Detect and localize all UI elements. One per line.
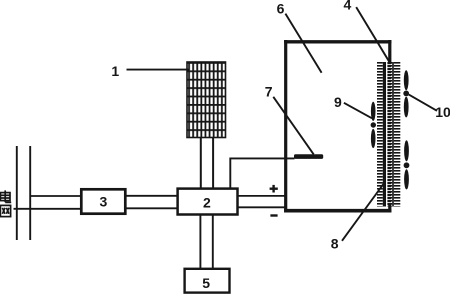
- wire box2 to electrode 7: [230, 158, 294, 189]
- leader line label 1: [127, 69, 190, 71]
- wire grid bus line right: [29, 146, 31, 240]
- wire box3 to box2 lower: [127, 207, 179, 209]
- component 4/8 (porous electrode band) left teeth: [377, 62, 383, 207]
- stirrer 9 (inner fan): [371, 102, 376, 148]
- svg-text:10: 10: [435, 104, 450, 120]
- wire box3 to box2 upper: [127, 195, 179, 197]
- svg-text:8: 8: [331, 236, 339, 252]
- stirrer 10 (outer fan upper): [403, 70, 409, 117]
- plus polarity sign: [270, 185, 278, 193]
- svg-text:7: 7: [265, 84, 273, 100]
- band spine 2: [387, 62, 391, 207]
- wire bus to box3 lower: [14, 208, 82, 210]
- svg-text:3: 3: [100, 194, 108, 210]
- box 2: [178, 189, 238, 215]
- box 3: [81, 189, 125, 213]
- svg-text:9: 9: [334, 94, 342, 110]
- band middle teeth: [391, 62, 393, 207]
- box 6 (reactor vessel): [284, 40, 391, 212]
- band right teeth: [394, 62, 401, 207]
- leader line label 7: [273, 97, 313, 155]
- wire box2 to box5 left: [199, 215, 201, 269]
- svg-text:2: 2: [203, 194, 211, 210]
- stirrer outer fan lower: [404, 140, 410, 189]
- leader line label 10: [409, 95, 437, 111]
- leader line label 4: [356, 7, 390, 63]
- leader line label 9: [344, 103, 372, 119]
- svg-text:1: 1: [111, 63, 119, 79]
- leader line label 6: [285, 14, 321, 73]
- wire box2 to box6 negative: [238, 206, 286, 208]
- wire box2 to box5 right: [212, 215, 214, 269]
- wire component1 to box2 left: [200, 138, 202, 190]
- component 1 (grid block): [187, 62, 226, 138]
- wire box2 to box6 positive: [238, 195, 286, 197]
- band spine 3: [392, 62, 394, 207]
- box 5: [185, 269, 230, 293]
- wire component1 to box2 right: [212, 138, 214, 190]
- node 电网 (power grid label): [0, 190, 11, 216]
- electrode 7 (bar): [294, 154, 323, 159]
- svg-text:6: 6: [277, 1, 285, 17]
- wire grid bus line left: [16, 146, 18, 240]
- svg-text:5: 5: [202, 275, 210, 291]
- leader line label 8: [342, 183, 385, 241]
- band spine 1: [383, 62, 386, 207]
- wire bus to box3 upper: [30, 195, 82, 197]
- minus polarity sign: [270, 214, 277, 216]
- svg-text:4: 4: [344, 0, 352, 13]
